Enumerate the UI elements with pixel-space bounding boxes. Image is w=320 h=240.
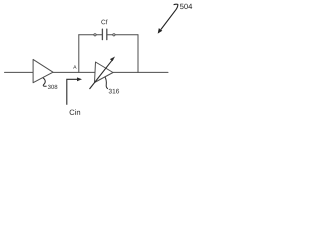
variable amplifier 316 diagonal arrow (90, 57, 116, 90)
leader arrow for 504 (158, 4, 178, 33)
label 308 (width 10.0) (48, 85, 58, 89)
leader squiggle for 316 (105, 77, 108, 89)
leader squiggle for 308 (43, 78, 47, 87)
capacitor Cf right terminal circle (113, 34, 115, 36)
label Cf (width 6.5) (101, 19, 107, 24)
wire node A segment between amplifiers (53, 71, 95, 73)
op-amp 308 triangle (33, 59, 53, 82)
wire (107, 34, 113, 36)
label Cin (width 10.5) (70, 109, 81, 115)
variable amplifier 316 triangle (95, 62, 114, 83)
wire feedback right vertical (137, 35, 139, 73)
wire feedback left vertical (78, 35, 80, 73)
capacitor Cf left terminal circle (94, 34, 96, 36)
wire input to amplifier 308 (5, 71, 34, 73)
control input Cin arrow (67, 77, 82, 104)
capacitor Cf plates (101, 29, 103, 39)
label 504 (width 11.7) (180, 4, 192, 9)
label 316 (width 10.0) (109, 89, 119, 94)
wire feedback top right (115, 34, 138, 36)
wire output (113, 71, 168, 73)
label A (width 3.3) (73, 65, 76, 68)
wire feedback top left (79, 34, 94, 36)
wire (96, 34, 102, 36)
